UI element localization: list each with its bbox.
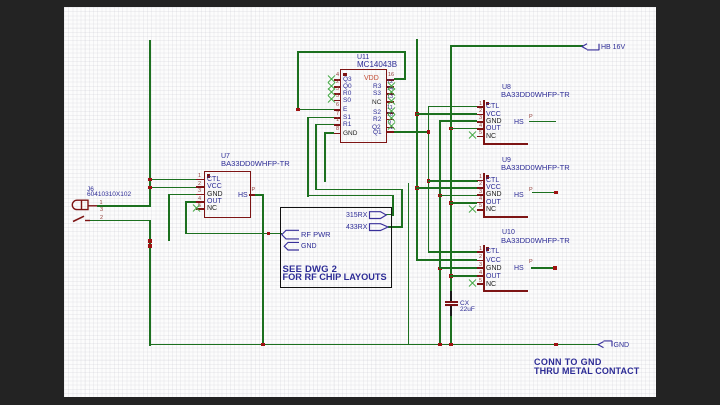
U11 left pin stubs	[334, 79, 340, 81]
port GND	[301, 243, 317, 250]
wire: V1 bus x=417	[416, 39, 418, 261]
U11 left pin numbers	[336, 73, 339, 79]
wire: U9 feeds	[428, 180, 478, 182]
LDO U10 BA33DD0WHFP-TR body	[483, 245, 485, 291]
port 433RX	[346, 224, 367, 231]
wire: V2 CTL bus x=428.5	[428, 106, 430, 253]
wire: bottom ground rail	[149, 344, 598, 346]
wire: V3 bus x=451 down to capacitor and rail	[450, 45, 452, 291]
port 315RX	[346, 212, 367, 219]
junctions on V3	[449, 127, 453, 131]
LDO U9 BA33DD0WHFP-TR body	[483, 173, 485, 217]
RF daughter block box	[280, 207, 392, 288]
port RF PWR	[301, 231, 331, 238]
wire: U7 CTL feed	[149, 179, 198, 181]
U11 right pin names	[364, 76, 379, 82]
wire: U7 OUT to RF PWR	[185, 201, 198, 203]
wire: U8 feeds	[428, 106, 478, 108]
wire: U7 VCC feed	[149, 187, 198, 189]
wire: U11 GND dangle	[324, 132, 334, 134]
wire: dangling vertical x=408.5	[408, 183, 410, 345]
wire: GND bus x=440	[439, 120, 441, 344]
wire: U11 VDD loop to E pin	[394, 78, 406, 80]
U11 right pin stubs	[386, 79, 394, 81]
wire: J6 pin1 horizontal	[97, 205, 151, 207]
U11 no-connect X marks right	[388, 82, 396, 90]
wire: U10 HS wire	[531, 267, 555, 269]
IC U11 MC14043B body	[340, 69, 387, 143]
wire: J6 pin2 vertical down to ground rail	[149, 220, 151, 346]
wire: U11 Q1 to CTL bus	[386, 131, 430, 133]
wire: U10 feeds	[428, 251, 478, 253]
junction U7 HS at ground rail	[261, 343, 265, 347]
wire: J6 pin1 vertical rail x=150 top	[149, 40, 151, 207]
junction on x150 at U7 VCC	[148, 186, 152, 190]
RF box note text	[283, 266, 338, 273]
connector J6	[87, 186, 94, 193]
junction on ground rail near GND flag	[554, 343, 558, 347]
wire: J6 pin2 horizontal	[88, 220, 151, 222]
wire: U11 R1 to 433RX	[315, 124, 334, 126]
wire: U7 HS tab down to ground rail	[252, 194, 264, 196]
U7 pin stubs	[196, 179, 204, 181]
junction on RF PWR line	[267, 232, 271, 236]
wire: U9 HS wire	[532, 192, 556, 194]
wire: U11 S1 to 315RX	[307, 117, 334, 119]
capacitor CX 22uF	[445, 301, 458, 303]
wire: U7 GND down dangle	[168, 194, 198, 196]
junction on x150 at U7 CTL	[148, 178, 152, 182]
U11 right pin numbers	[388, 73, 394, 79]
U7 pin names	[207, 176, 220, 183]
LDO U8 BA33DD0WHFP-TR body	[483, 100, 485, 145]
U11 left pin names	[343, 76, 352, 83]
U7 NC X mark	[193, 204, 201, 212]
junction at VDD/E corner	[296, 108, 300, 112]
U11 no-connect X marks left	[328, 75, 336, 83]
U7 pin numbers	[198, 174, 201, 180]
LDO U7 BA33DD0WHFP-TR body	[204, 171, 251, 218]
wire: U8 HS wire	[529, 121, 556, 123]
note: conn to gnd	[534, 359, 602, 366]
wire: top rail to HB 16V flag	[450, 45, 583, 47]
junction pair on x150 ground branch	[148, 239, 152, 243]
